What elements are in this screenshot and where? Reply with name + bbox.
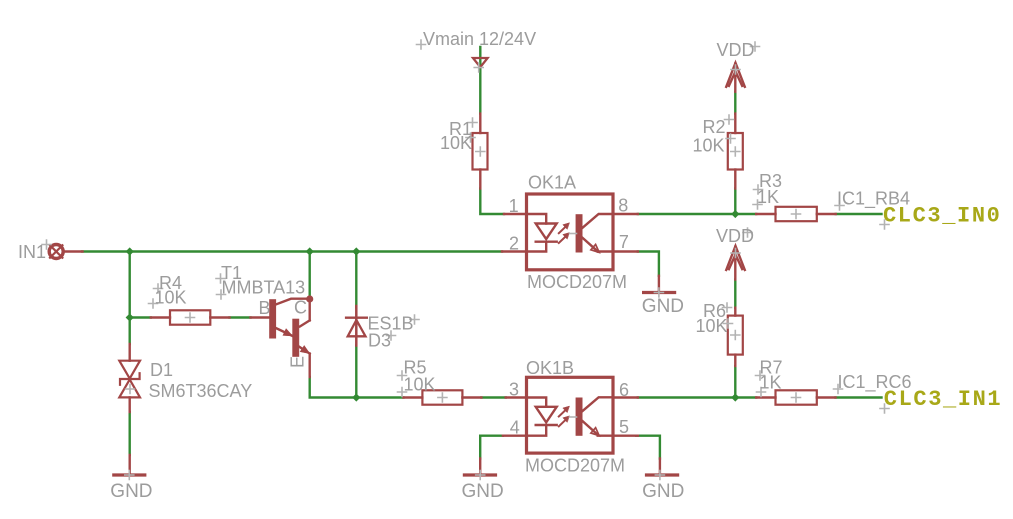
supply VDD1 arrow: [726, 63, 745, 92]
opto OK1B internal LED: [528, 398, 557, 436]
junction at D3 top: [352, 247, 360, 255]
resistor R6 (vertical): [728, 308, 743, 366]
junction at T1 collector on top rail: [306, 247, 314, 255]
svg-text:MOCD207M: MOCD207M: [527, 272, 627, 292]
wire: R5 to OK1B pin3: [481, 396, 505, 398]
wire: VDD1 to R2: [734, 92, 736, 114]
svg-text:5: 5: [619, 417, 629, 437]
wire: R3 to CLC3_IN0: [836, 213, 882, 215]
svg-text:10K: 10K: [404, 375, 436, 395]
svg-text:2: 2: [509, 234, 519, 254]
wire: OK1A pin7 to GND: [638, 252, 659, 276]
wire: vertical at x130 from top rail to D1: [128, 252, 130, 345]
junction at D3 bottom: [352, 393, 360, 401]
svg-text:10K: 10K: [440, 133, 472, 153]
svg-text:7: 7: [619, 232, 629, 252]
opto OK1B pin stubs: [503, 398, 638, 436]
resistor R4 (horizontal): [151, 310, 230, 324]
wire: T1 emitter to bottom rail: [310, 377, 404, 398]
ground under OK1B pin5: [647, 459, 678, 476]
wire: R7 to CLC3_IN1: [836, 396, 882, 398]
svg-text:D3: D3: [368, 331, 391, 351]
wire: D3 bottom lead: [355, 346, 357, 398]
ground under OK1A pin7: [644, 276, 675, 293]
svg-text:10K: 10K: [696, 316, 728, 336]
diode D1 SM6T36CAY (bidirectional TVS): [119, 344, 140, 412]
svg-text:10K: 10K: [155, 288, 187, 308]
svg-text:1K: 1K: [757, 187, 779, 207]
svg-text:OK1A: OK1A: [528, 173, 576, 193]
svg-text:Vmain 12/24V: Vmain 12/24V: [423, 29, 536, 49]
wire: Vmain to R1: [479, 47, 481, 114]
resistor R7 (horizontal): [756, 390, 835, 404]
junction at R6/R7 node: [731, 393, 739, 401]
svg-text:3: 3: [509, 380, 519, 400]
svg-text:8: 8: [618, 196, 628, 216]
wire: R4 branch: [130, 316, 151, 318]
opto OK1A phototransistor: [576, 214, 612, 252]
svg-text:GND: GND: [462, 481, 504, 502]
wire: VDD2 to R6: [734, 280, 736, 308]
opto OK1B phototransistor: [576, 397, 612, 435]
wire: D1 bottom to GND: [128, 412, 130, 455]
svg-text:VDD: VDD: [716, 226, 754, 246]
svg-text:OK1B: OK1B: [526, 358, 574, 378]
resistor R3 (horizontal): [756, 207, 836, 221]
wire: R2 to junction: [734, 189, 736, 215]
resistor R5 (horizontal): [403, 390, 481, 404]
wire: OK1B pin5 to GND: [636, 436, 660, 459]
svg-text:1: 1: [509, 196, 519, 216]
svg-text:IN1: IN1: [18, 242, 46, 262]
svg-text:CLC3_IN0: CLC3_IN0: [883, 203, 1001, 228]
ground under OK1B pin4: [464, 459, 495, 476]
svg-text:C: C: [294, 298, 307, 318]
resistor R1 (vertical): [473, 114, 488, 189]
svg-text:GND: GND: [642, 296, 684, 317]
svg-text:MOCD207M: MOCD207M: [525, 456, 625, 476]
wire: R6 bottom to junction: [734, 366, 736, 398]
svg-text:10K: 10K: [693, 136, 725, 156]
diode D3 ES1B: [346, 306, 367, 346]
svg-text:6: 6: [619, 380, 629, 400]
svg-text:MMBTA13: MMBTA13: [222, 278, 306, 298]
supply VDD2 arrow: [726, 246, 745, 280]
ground under D1: [114, 455, 145, 475]
transistor T1 MMBTA13 (darlington): [251, 295, 314, 377]
wire: OK1B pin4 to GND: [480, 436, 503, 459]
pin IN1 (circle-X input pin): [49, 245, 82, 259]
svg-text:D1: D1: [150, 360, 173, 380]
opto OK1B light arrows: [559, 406, 570, 426]
svg-text:VDD: VDD: [717, 40, 755, 60]
wire: top rail IN1 to OK1A pin2: [82, 250, 502, 252]
wire: D3 top lead: [355, 252, 357, 308]
svg-text:E: E: [288, 356, 308, 368]
opto OK1A pin stubs: [502, 214, 638, 252]
opto OK1A light arrows: [559, 223, 570, 243]
wire: T1 collector riser: [309, 252, 311, 297]
svg-text:CLC3_IN1: CLC3_IN1: [884, 387, 1002, 412]
svg-text:1K: 1K: [760, 373, 782, 393]
origin crosses (gray): [42, 40, 889, 480]
svg-text:B: B: [259, 298, 271, 318]
junction at R4 branch: [126, 313, 134, 321]
svg-text:4: 4: [510, 417, 520, 437]
svg-text:GND: GND: [110, 481, 152, 502]
wire: OK1B pin6 to junction to R7: [638, 396, 756, 398]
svg-text:SM6T36CAY: SM6T36CAY: [149, 381, 253, 401]
wire: R1 to OK1A pin1: [480, 189, 504, 215]
resistor R2 (vertical): [728, 114, 743, 189]
opto OK1B box: [527, 377, 614, 453]
wire: OK1A pin8 to junction to R3: [638, 213, 756, 215]
svg-text:R2: R2: [703, 117, 726, 137]
opto OK1A internal LED: [528, 214, 557, 252]
junction at R2/R3 node: [731, 210, 739, 218]
svg-text:GND: GND: [642, 481, 684, 502]
junction at IN1 rail x130: [126, 247, 134, 255]
opto OK1A box: [527, 194, 614, 270]
supply Vmain arrow (down triangle): [473, 58, 488, 67]
